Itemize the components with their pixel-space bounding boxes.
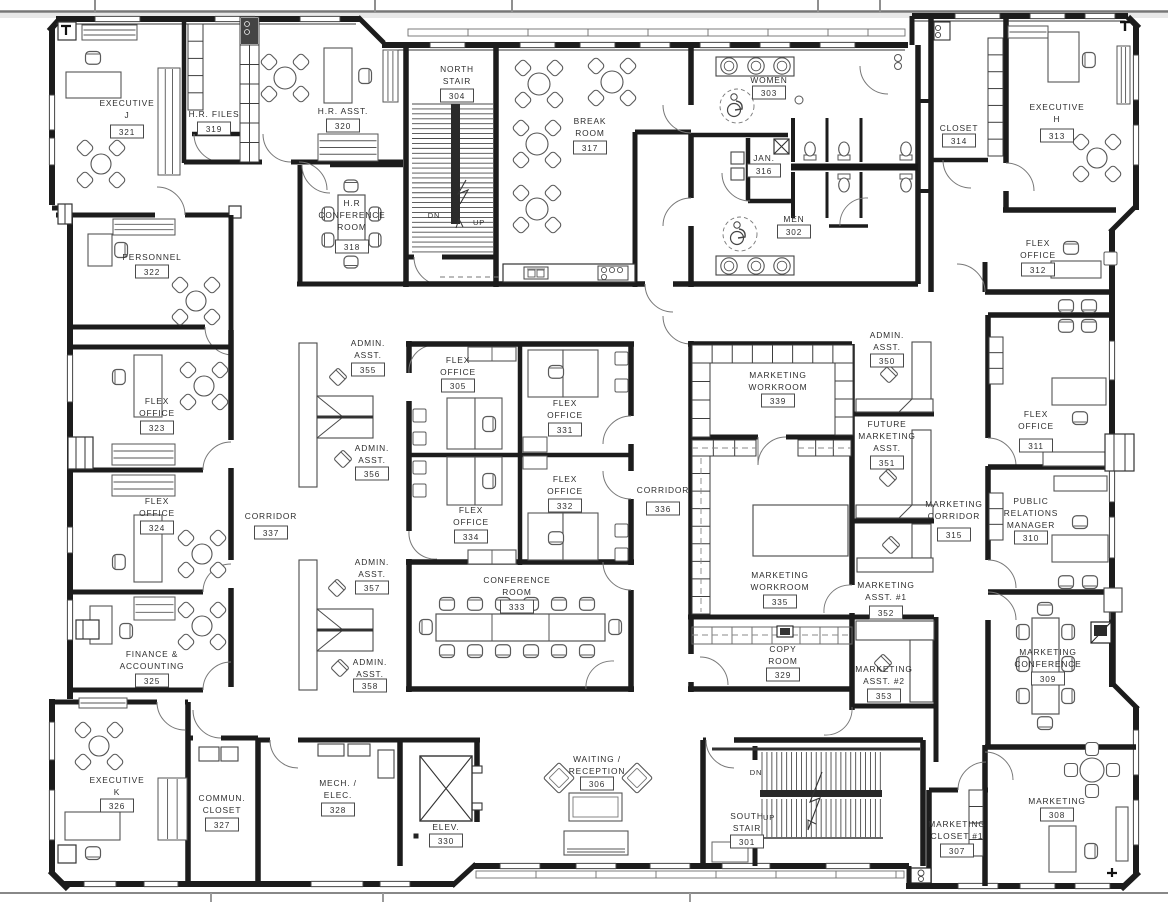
svg-text:FLEX: FLEX <box>553 474 577 484</box>
corner detail executive H <box>1120 22 1130 31</box>
flex 305 furniture <box>468 347 516 361</box>
svg-text:353: 353 <box>876 692 892 701</box>
grid tick marks top <box>94 0 96 12</box>
svg-text:339: 339 <box>770 397 786 406</box>
room Flex 312 furniture <box>1064 242 1079 255</box>
wall South Stair inner x757 <box>753 746 758 760</box>
svg-text:STAIR: STAIR <box>443 76 471 86</box>
svg-text:ADMIN.: ADMIN. <box>351 338 385 348</box>
wheelchair symbol Women <box>720 89 754 123</box>
windows right walls <box>1133 55 1139 100</box>
svg-text:OFFICE: OFFICE <box>453 517 489 527</box>
door arc men stall <box>840 198 868 226</box>
svg-text:310: 310 <box>1023 534 1039 543</box>
svg-text:334: 334 <box>463 533 479 542</box>
wall H.R. Conference bottom <box>297 282 403 287</box>
svg-text:337: 337 <box>263 529 279 538</box>
north stair break arrow <box>458 180 468 204</box>
svg-text:ADMIN.: ADMIN. <box>353 657 387 667</box>
svg-text:STAIR: STAIR <box>733 823 761 833</box>
door arc Conference top-east <box>603 562 631 590</box>
svg-text:EXECUTIVE: EXECUTIVE <box>99 98 154 108</box>
svg-text:FINANCE &: FINANCE & <box>126 649 178 659</box>
wall Closet314 bottom / corridor <box>931 158 988 163</box>
svg-text:OFFICE: OFFICE <box>440 367 476 377</box>
wall Executive H west x1006 <box>1003 18 1009 163</box>
exterior step bottom right <box>907 866 912 886</box>
toilet W3 <box>900 155 912 160</box>
corridor 315 shelf nook upper <box>989 337 1003 384</box>
corner detail marketing SE <box>1107 868 1117 877</box>
lavs Men <box>721 258 737 274</box>
wall stalls x793 <box>791 118 795 162</box>
door arc HR corridor opening <box>263 134 291 162</box>
svg-text:351: 351 <box>879 459 895 468</box>
wall South Stair top y740 <box>703 738 706 743</box>
wall cubicle divider y414 <box>852 412 934 417</box>
wall Flex323/324 divider y470 <box>70 468 203 473</box>
wall H.R. Files bottom <box>192 132 242 137</box>
svg-text:WOMEN: WOMEN <box>750 75 787 85</box>
svg-text:301: 301 <box>739 838 755 847</box>
svg-text:314: 314 <box>951 137 967 146</box>
north stair center rail <box>451 104 460 224</box>
svg-text:H.R. FILES: H.R. FILES <box>189 109 240 119</box>
grid tick marks bottom <box>210 893 212 902</box>
room Finance furniture <box>134 597 175 620</box>
svg-text:327: 327 <box>214 821 230 830</box>
corner detail closet <box>934 22 950 40</box>
svg-text:COMMUN.: COMMUN. <box>199 793 246 803</box>
toilet W1 <box>804 155 816 160</box>
south stair upper landing beam <box>712 748 920 751</box>
wall workroom335 bottom y617 <box>688 615 934 620</box>
wall corridor west x231 (flex offices east wall) <box>228 330 234 440</box>
south stair lower flight edge <box>755 837 883 839</box>
svg-text:305: 305 <box>450 382 466 391</box>
svg-text:ASST.: ASST. <box>356 669 384 679</box>
corner detail executive J <box>58 22 76 40</box>
wall Flex312 west <box>983 262 988 292</box>
door arc Flex 323b <box>203 442 231 470</box>
room Mech/Elec equipment <box>318 744 344 756</box>
wall cubicle divider y521 <box>853 519 934 524</box>
exterior step top at x912 <box>910 16 915 45</box>
room H.R. Conference furniture <box>338 195 365 252</box>
room Executive J furniture <box>82 25 137 40</box>
door arc Flex 305 <box>409 345 437 373</box>
elevator shaft <box>420 756 472 821</box>
svg-text:CLOSET: CLOSET <box>940 123 979 133</box>
canopy line top middle <box>408 29 905 36</box>
svg-text:332: 332 <box>557 502 573 511</box>
wall Executive K east x188 <box>185 702 191 884</box>
left wall step detail <box>58 204 72 224</box>
workstation Admin Asst 357/358 <box>299 560 317 690</box>
svg-text:PERSONNEL: PERSONNEL <box>122 252 181 262</box>
svg-text:OFFICE: OFFICE <box>139 508 175 518</box>
room Marketing Closet shelving <box>969 790 983 856</box>
room Commun Closet equipment <box>199 747 219 761</box>
wall corridor top y162 (HR area) <box>184 160 262 165</box>
door arc Break Room <box>645 284 673 312</box>
door arc Flex 334 <box>409 531 437 559</box>
svg-text:MEN: MEN <box>783 214 804 224</box>
svg-text:MARKETING: MARKETING <box>751 570 808 580</box>
right wall step detail <box>1104 588 1122 612</box>
svg-text:FLEX: FLEX <box>1024 409 1048 419</box>
room Flex 324 furniture <box>134 515 162 582</box>
svg-text:K: K <box>114 787 120 797</box>
exterior chamfer right at y690 <box>1113 684 1138 709</box>
south stair treads lower <box>761 799 763 837</box>
flex 334 furniture <box>447 457 475 505</box>
wall Flex323 top y347 <box>70 345 231 350</box>
svg-text:352: 352 <box>878 609 894 618</box>
svg-text:BREAK: BREAK <box>574 116 607 126</box>
svg-text:328: 328 <box>330 806 346 815</box>
wall Conference333 east x631 <box>628 590 634 692</box>
svg-text:FUTURE: FUTURE <box>867 419 906 429</box>
wall flex block mid vertical x520 <box>518 344 523 565</box>
svg-text:CORRIDOR: CORRIDOR <box>928 511 980 521</box>
svg-text:ASST.: ASST. <box>873 342 901 352</box>
svg-text:J: J <box>124 110 129 120</box>
wall South Stair west x703 <box>700 740 706 866</box>
room Marketing 308 furniture <box>1086 743 1099 756</box>
workroom dashed counters <box>692 627 852 644</box>
svg-text:316: 316 <box>756 167 772 176</box>
svg-text:DN: DN <box>750 768 763 777</box>
exterior wall top middle <box>382 42 908 48</box>
door arc Executive J <box>157 187 185 215</box>
door arc corridor south <box>824 707 852 735</box>
wall workroom east x852 <box>849 344 855 585</box>
lavatory counter Women <box>716 57 794 76</box>
svg-text:303: 303 <box>761 89 777 98</box>
wall right rooms west x988 <box>985 315 991 438</box>
door arc Marketing 308 <box>985 752 1013 780</box>
wall Executive J / Personnel divider <box>56 213 155 218</box>
wall Personnel bottom <box>70 325 205 330</box>
svg-text:317: 317 <box>582 144 598 153</box>
svg-text:MARKETING: MARKETING <box>749 370 806 380</box>
exterior wall bottom-left bay (Executive K) <box>49 699 55 874</box>
svg-text:322: 322 <box>144 268 160 277</box>
door arc Flex 311 <box>988 438 1016 466</box>
canopy line bottom middle <box>476 871 904 878</box>
mop sink Jan <box>774 139 789 154</box>
wall Marketing Conf / Marketing divider y747 <box>985 744 1136 750</box>
wall junction box corridor <box>229 206 241 218</box>
svg-text:313: 313 <box>1049 132 1065 141</box>
workstation Marketing Asst #1 <box>912 524 931 558</box>
wall Marketing Closet top y790 <box>929 788 958 793</box>
stall front wall men <box>829 224 868 228</box>
svg-text:330: 330 <box>438 837 454 846</box>
elevator call dot <box>414 834 418 838</box>
clock symbol women <box>795 96 803 104</box>
door arc workroom NW <box>663 316 691 344</box>
svg-text:329: 329 <box>775 671 791 680</box>
marketing workroom 335 counters <box>692 440 756 456</box>
toilet W2 <box>838 155 850 160</box>
svg-text:EXECUTIVE: EXECUTIVE <box>89 775 144 785</box>
svg-text:EXECUTIVE: EXECUTIVE <box>1029 102 1084 112</box>
jan wall fixtures <box>731 152 744 164</box>
wall Commun Closet east x258 <box>255 738 261 884</box>
svg-text:H.R. ASST.: H.R. ASST. <box>318 106 368 116</box>
wall cubicle divider y706 <box>853 704 934 709</box>
svg-text:WORKROOM: WORKROOM <box>749 382 808 392</box>
svg-text:ASST.: ASST. <box>358 455 386 465</box>
north stair treads <box>412 103 493 105</box>
svg-text:CLOSET: CLOSET <box>203 805 242 815</box>
lavs Women <box>721 58 737 74</box>
exterior chamfer top at x370 <box>358 17 384 43</box>
wall restrooms east x918 <box>915 45 921 284</box>
svg-text:MECH. /: MECH. / <box>319 778 357 788</box>
wall copy room bottom y689 <box>688 686 726 692</box>
svg-text:FLEX: FLEX <box>1026 238 1050 248</box>
wall Women stall row y135 <box>691 133 746 138</box>
exterior step left at y205 <box>52 206 70 211</box>
wall restrooms west x691 <box>688 45 694 105</box>
svg-text:ASST. #1: ASST. #1 <box>865 592 907 602</box>
svg-text:ACCOUNTING: ACCOUNTING <box>120 661 185 671</box>
svg-text:308: 308 <box>1049 811 1065 820</box>
svg-text:UP: UP <box>473 218 485 227</box>
door arc Executive K <box>157 702 185 730</box>
exterior wall top-left bay (Executive J) <box>56 16 360 22</box>
door arc H.R. Asst <box>299 162 327 190</box>
wall Jan west x748 <box>746 138 751 201</box>
svg-text:CORRIDOR: CORRIDOR <box>637 485 689 495</box>
svg-text:MARKETING: MARKETING <box>925 499 982 509</box>
svg-text:MARKETING: MARKETING <box>1028 796 1085 806</box>
wall Jan south y201 <box>748 199 791 204</box>
exterior wall top-right bay (Executive H) <box>1133 25 1139 210</box>
room H.R. Asst furniture <box>260 53 278 71</box>
svg-text:321: 321 <box>119 128 135 137</box>
wall flex block mid horizontal y455 <box>409 453 631 458</box>
svg-text:325: 325 <box>144 677 160 686</box>
svg-text:333: 333 <box>509 603 525 612</box>
wall flex block bottom y562 <box>406 559 634 565</box>
left wall column detail <box>76 620 99 639</box>
break room counter <box>503 264 635 282</box>
svg-text:326: 326 <box>109 802 125 811</box>
gray section line top <box>0 10 1168 13</box>
wall restrooms bottom y284 <box>691 281 918 287</box>
room Personnel furniture <box>113 219 175 235</box>
door arc Flex 324b <box>203 564 231 592</box>
workstation Marketing Asst #2 <box>856 621 934 640</box>
svg-text:OFFICE: OFFICE <box>139 408 175 418</box>
stall partitions women <box>826 118 829 162</box>
wall Executive H bottom y210 <box>1003 207 1116 213</box>
wall Conference333 bottom y689 <box>406 686 634 692</box>
svg-text:ASST.: ASST. <box>354 350 382 360</box>
svg-text:DN: DN <box>428 211 441 220</box>
svg-text:ROOM: ROOM <box>768 656 797 666</box>
door hardware circles <box>895 55 902 62</box>
svg-text:MARKETING: MARKETING <box>855 664 912 674</box>
svg-text:WAITING /: WAITING / <box>573 754 621 764</box>
credenzas flex 323/324 divider <box>112 444 175 465</box>
door arc H.R. Conference <box>302 165 330 193</box>
wall North Stair east / Break Room west <box>493 45 499 287</box>
room Closet 314 shelving <box>988 38 1003 156</box>
exterior wall bottom middle <box>473 863 909 869</box>
exterior wall mid-right <box>1109 230 1115 687</box>
svg-text:331: 331 <box>557 426 573 435</box>
door arc Conference inner <box>586 661 614 689</box>
svg-text:COPY: COPY <box>769 644 796 654</box>
wall H.R. Conference top <box>330 163 403 168</box>
wall Finance bottom y690 <box>70 688 203 693</box>
svg-text:CORRIDOR: CORRIDOR <box>245 511 297 521</box>
svg-text:FLEX: FLEX <box>459 505 483 515</box>
wall Break Room alcove y132 <box>635 130 691 135</box>
flex 332 furniture <box>528 513 563 560</box>
south stair break arrow <box>808 772 822 830</box>
break room stove <box>598 266 628 280</box>
door arc Copy Room <box>700 657 728 685</box>
windows left walls <box>49 95 55 130</box>
svg-text:302: 302 <box>786 228 802 237</box>
svg-text:320: 320 <box>335 122 351 131</box>
exterior wall mid-left <box>67 215 73 699</box>
wall Break Room east x635 <box>633 132 638 287</box>
break room dashed service line <box>440 276 502 278</box>
wall Flex311 bottom y467 <box>988 464 1112 470</box>
svg-text:OFFICE: OFFICE <box>1020 250 1056 260</box>
svg-text:323: 323 <box>149 424 165 433</box>
wall marketing corridor west x936 <box>934 617 939 762</box>
conference room 333 table <box>436 614 605 641</box>
south stair bottom mat <box>712 842 748 862</box>
wall workroom top y344 <box>688 341 852 347</box>
room Waiting/Reception furniture <box>543 762 574 793</box>
inner face lines exterior <box>56 23 356 25</box>
svg-text:FLEX: FLEX <box>145 396 169 406</box>
room Marketing Conference furniture <box>1032 618 1059 714</box>
wall Personnel east <box>229 215 234 330</box>
room Flex 311 furniture <box>1059 300 1074 313</box>
svg-text:358: 358 <box>362 682 378 691</box>
svg-text:ELEV.: ELEV. <box>432 822 459 832</box>
door arc North Stair <box>414 257 442 285</box>
door arc South Stair <box>706 740 734 768</box>
lavatory counter Men <box>716 256 794 275</box>
door arc workroom divider <box>758 437 786 465</box>
svg-text:RECEPTION: RECEPTION <box>569 766 626 776</box>
south stair treads upper <box>761 752 763 790</box>
wheelchair symbol Men <box>723 217 757 251</box>
right wall bay detail H <box>1105 434 1134 471</box>
svg-text:304: 304 <box>449 92 465 101</box>
wall Flex312 bottom y292 <box>985 289 1112 295</box>
svg-text:306: 306 <box>589 780 605 789</box>
svg-text:UP: UP <box>763 813 775 822</box>
svg-text:315: 315 <box>946 531 962 540</box>
toilet M1 <box>838 174 850 179</box>
svg-text:357: 357 <box>364 584 380 593</box>
door arc Marketing Closet <box>958 762 986 790</box>
door arc workroom east <box>824 585 852 613</box>
wall Mech top y740 <box>258 738 270 743</box>
svg-text:RELATIONS: RELATIONS <box>1004 508 1059 518</box>
svg-text:H: H <box>1054 114 1061 124</box>
workstation Admin Asst 355/356 <box>299 343 317 487</box>
svg-text:NORTH: NORTH <box>440 64 474 74</box>
svg-text:311: 311 <box>1028 442 1044 451</box>
wall North Stair west <box>403 45 409 287</box>
svg-text:ROOM: ROOM <box>502 587 531 597</box>
wall flex block east x631 <box>628 344 634 416</box>
svg-text:JAN.: JAN. <box>753 153 775 163</box>
wall flex block top y344 <box>406 341 634 347</box>
wall Executive K top y702 with door <box>70 700 157 705</box>
svg-text:ROOM: ROOM <box>337 222 366 232</box>
svg-text:MANAGER: MANAGER <box>1007 520 1055 530</box>
exterior chamfer bottom mid-left <box>452 864 476 886</box>
stall partitions men <box>826 172 829 218</box>
copy machine <box>777 626 793 637</box>
door arc Marketing Conference <box>988 592 1016 620</box>
door arc Jan <box>722 173 750 201</box>
svg-text:FLEX: FLEX <box>446 355 470 365</box>
wall flex block west x409 <box>406 341 412 373</box>
room H.R. Files shelving <box>188 24 203 110</box>
svg-text:ASST. #2: ASST. #2 <box>863 676 905 686</box>
svg-text:ASST.: ASST. <box>873 443 901 453</box>
svg-text:SOUTH: SOUTH <box>730 811 764 821</box>
wall Flex311 top y315 <box>988 312 1112 318</box>
corner detail executive K <box>62 848 72 857</box>
wall Marketing Conference east x1113 <box>1110 612 1116 684</box>
svg-text:350: 350 <box>879 357 895 366</box>
south stair rail <box>760 790 882 797</box>
svg-text:356: 356 <box>364 470 380 479</box>
svg-text:MARKETING: MARKETING <box>928 819 985 829</box>
svg-text:H.R: H.R <box>344 198 361 208</box>
wall North Stair bottom <box>406 255 414 260</box>
door arc Finance <box>203 662 231 690</box>
elevator door jambs <box>472 766 482 773</box>
wall H.R. Files east-west <box>182 19 187 163</box>
toilet M2 <box>900 174 912 179</box>
svg-text:336: 336 <box>655 505 671 514</box>
svg-text:335: 335 <box>772 598 788 607</box>
wall H.R. Conference west <box>298 165 303 286</box>
svg-text:FLEX: FLEX <box>145 496 169 506</box>
svg-text:319: 319 <box>206 125 222 134</box>
wall stub restrooms-closet y191 <box>918 189 931 193</box>
workstation Future Marketing Asst 351 <box>912 430 931 505</box>
wall closet column x931 <box>928 16 934 292</box>
svg-text:ROOM: ROOM <box>575 128 604 138</box>
door arc Closet 314 <box>943 160 971 188</box>
dark fixture at closet south <box>911 868 931 883</box>
door arc H.R. Files <box>194 134 222 162</box>
door arcs flex block east <box>603 416 631 444</box>
door arc Men entry <box>663 198 691 226</box>
room Public Relations Manager furniture <box>1054 476 1107 491</box>
wall north corridor top y284 (mid) <box>403 281 645 287</box>
wall workroom divider y437 <box>691 435 758 440</box>
